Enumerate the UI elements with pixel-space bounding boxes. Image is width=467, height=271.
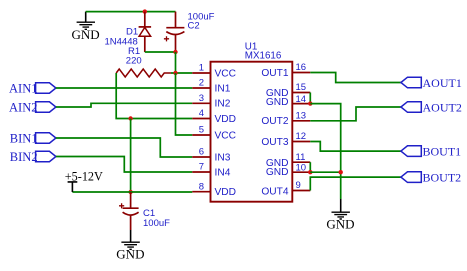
port AOUT2: [401, 101, 462, 115]
svg-text:100uF: 100uF: [143, 218, 170, 229]
svg-text:GND: GND: [116, 247, 144, 262]
svg-text:OUT3: OUT3: [261, 137, 289, 148]
pin 7 IN4: [192, 162, 230, 179]
svg-text:VDD: VDD: [215, 187, 237, 198]
pin 15 GND: [266, 82, 310, 99]
svg-text:BIN2: BIN2: [10, 150, 38, 164]
svg-text:2: 2: [199, 78, 204, 89]
node junction pin1/VCC: [173, 71, 177, 75]
svg-text:OUT1: OUT1: [261, 68, 289, 79]
svg-text:11: 11: [296, 152, 306, 163]
wire R1 left vertical to VDD row: [116, 73, 192, 119]
svg-text:AIN1: AIN1: [9, 81, 37, 95]
wire BIN1 to IN3: [56, 138, 192, 157]
capacitor C1 100uF: [119, 192, 170, 230]
svg-text:VCC: VCC: [215, 68, 237, 79]
node junction pin10: [308, 170, 312, 174]
svg-text:IN3: IN3: [215, 152, 231, 163]
svg-text:OUT2: OUT2: [261, 116, 289, 127]
pin 11 GND: [266, 152, 310, 169]
wire VCC node vertical to pin1 row: [175, 52, 177, 73]
wire pin11 down to pin10: [309, 162, 311, 172]
node junction VDD pin8: [128, 190, 132, 194]
wire VCC vertical pin1 to pin5: [176, 73, 193, 135]
svg-text:IN2: IN2: [215, 99, 231, 110]
node junction above D1: [143, 9, 147, 13]
wire OUT2 to AOUT2: [310, 107, 401, 121]
svg-text:7: 7: [199, 162, 204, 173]
port BIN2: [10, 150, 56, 164]
svg-text:AOUT1: AOUT1: [423, 76, 462, 90]
pin 10 GND: [266, 163, 310, 178]
ground GND bottom-right: [326, 199, 354, 232]
pin 9 OUT4: [261, 180, 310, 198]
port AIN2: [9, 100, 56, 114]
port BIN1: [10, 131, 56, 145]
op-amp U1 MX1616 IC body: [211, 42, 293, 202]
pin 13 OUT2: [261, 110, 310, 127]
wire VDD vertical pin4 to pin8: [130, 119, 132, 193]
node junction pin14: [308, 101, 312, 105]
node junction VDD pin4: [128, 116, 132, 120]
svg-text:AIN2: AIN2: [9, 100, 37, 114]
pin 16 OUT1: [261, 62, 310, 79]
pin 1 VCC: [192, 63, 236, 80]
power port +5-12V: [65, 169, 103, 192]
pin 6 IN3: [192, 147, 230, 164]
svg-text:IN4: IN4: [215, 167, 231, 178]
wire GND net to vertical: [310, 104, 340, 199]
wire OUT4 to BOUT2: [310, 177, 401, 190]
pin 12 OUT3: [261, 131, 310, 148]
svg-text:10: 10: [296, 163, 307, 174]
svg-text:GND: GND: [326, 217, 354, 232]
svg-text:GND: GND: [266, 167, 289, 178]
node junction GND vertical: [339, 170, 343, 174]
ground GND bottom-left: [116, 230, 144, 262]
wire OUT1 to AOUT1: [310, 73, 401, 83]
resistor R1 220: [116, 46, 171, 77]
svg-text:9: 9: [296, 180, 301, 191]
svg-text:BIN1: BIN1: [10, 131, 38, 145]
svg-text:8: 8: [199, 181, 204, 192]
wire BIN2 to IN4: [56, 157, 192, 173]
svg-text:6: 6: [199, 147, 204, 158]
wire AIN1 to IN1: [56, 87, 192, 89]
svg-text:4: 4: [199, 108, 204, 119]
pin 3 IN2: [192, 93, 230, 110]
wire R1 right end to pin1: [171, 72, 192, 74]
wire +5-12V to pin8 VDD: [72, 191, 192, 193]
svg-text:GND: GND: [72, 27, 100, 42]
svg-text:MX1616: MX1616: [245, 50, 282, 61]
svg-text:IN1: IN1: [215, 83, 231, 94]
port BOUT2: [401, 171, 461, 185]
wire AIN2 to IN2: [56, 103, 192, 107]
svg-text:13: 13: [296, 110, 307, 121]
pin 8 VDD: [192, 181, 236, 198]
svg-text:OUT4: OUT4: [261, 187, 289, 198]
svg-text:14: 14: [296, 94, 307, 105]
svg-text:VCC: VCC: [215, 130, 237, 141]
svg-text:C2: C2: [188, 20, 200, 31]
svg-text:BOUT1: BOUT1: [423, 145, 462, 159]
svg-text:BOUT2: BOUT2: [423, 171, 462, 185]
svg-text:220: 220: [126, 56, 142, 67]
svg-text:3: 3: [199, 93, 204, 104]
svg-text:VDD: VDD: [215, 114, 237, 125]
svg-text:16: 16: [296, 62, 307, 73]
pin 5 VCC: [192, 125, 236, 142]
port AOUT1: [401, 76, 462, 90]
svg-text:5: 5: [199, 125, 204, 136]
wire GND net top: [86, 11, 176, 13]
wire pin10 to GND vertical: [310, 171, 340, 173]
svg-text:15: 15: [296, 82, 307, 93]
diode D1 1N4448: [105, 12, 152, 52]
node junction at C2 bottom: [173, 50, 177, 54]
pin 2 IN1: [192, 78, 230, 95]
wire OUT3 to BOUT1: [310, 142, 401, 152]
port BOUT1: [401, 145, 461, 159]
wire pin15 down to pin14: [309, 93, 311, 104]
ground GND top-left: [72, 12, 100, 42]
capacitor C2 100uF: [164, 11, 215, 52]
svg-text:1: 1: [199, 63, 204, 74]
port AIN1: [9, 81, 56, 95]
wire D1 bottom to C2 bottom: [145, 51, 176, 53]
pin 4 VDD: [192, 108, 236, 125]
svg-text:12: 12: [296, 131, 307, 142]
svg-text:AOUT2: AOUT2: [423, 101, 462, 115]
svg-text:+5-12V: +5-12V: [65, 169, 103, 183]
svg-text:GND: GND: [266, 97, 289, 108]
pin 14 GND: [266, 94, 310, 108]
